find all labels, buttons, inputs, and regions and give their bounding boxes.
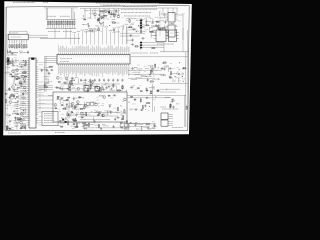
value label (19, 42, 22, 44)
U2 right pin 1 (36, 60, 38, 62)
wire (13, 122, 19, 124)
value label (73, 113, 75, 115)
U2 left pin 8 (27, 75, 29, 77)
wire (92, 29, 98, 31)
pin label (116, 66, 118, 72)
value label (152, 127, 155, 129)
value label (155, 16, 158, 18)
pin label (85, 47, 87, 52)
capacitor C4 (115, 9, 117, 13)
value label (10, 99, 13, 101)
U7 pin (154, 38, 157, 40)
value label (160, 27, 164, 29)
U1 pin number (85, 62, 87, 63)
pin label (110, 45, 112, 52)
wire (24, 108, 26, 113)
value label (113, 27, 116, 29)
wire (5, 89, 11, 91)
value label (116, 111, 120, 113)
U1 bottom pin 24 (104, 64, 106, 66)
value label (21, 77, 27, 79)
value label (151, 72, 154, 74)
pin label (74, 66, 76, 72)
value label (152, 88, 156, 90)
U2 pin number (30, 64, 31, 66)
value label (125, 129, 129, 131)
U8 pin (177, 38, 180, 40)
value label (75, 108, 77, 110)
U1 top pin 23 (102, 53, 104, 55)
wire (158, 7, 178, 9)
value label (11, 93, 15, 95)
pin label (96, 66, 98, 76)
transistor Q34 (68, 114, 71, 117)
U1 bottom pin 18 (92, 64, 94, 66)
capacitor C72 (57, 97, 59, 101)
node (8, 114, 11, 117)
capacitor C37 (169, 68, 173, 70)
pin label (104, 66, 106, 73)
wire (80, 115, 118, 117)
transistor Q2 (94, 13, 97, 16)
U3 pin 3 (13, 40, 15, 43)
resistor R70 (72, 119, 77, 120)
connector CN3 pin 3 (140, 47, 142, 49)
U1 pin number (67, 62, 69, 63)
value label (72, 107, 75, 109)
value label (95, 24, 98, 26)
resistor R79 (98, 124, 99, 129)
value label (21, 66, 27, 68)
U2 right pin 26 (36, 113, 38, 115)
value label (172, 80, 175, 82)
capacitor C84 (144, 104, 146, 108)
wire (71, 77, 73, 82)
value label (73, 31, 76, 33)
value label (105, 26, 108, 28)
U1 bottom pin 9 (74, 64, 76, 66)
resistor R202 (14, 44, 15, 49)
resistor R36 (90, 85, 91, 90)
wire (145, 20, 147, 25)
capacitor C75 (58, 121, 62, 123)
U1 bottom pin 8 (72, 64, 74, 66)
value label (14, 110, 18, 112)
value label (117, 14, 121, 16)
value label (124, 122, 127, 124)
value label (21, 65, 24, 67)
value label (76, 122, 80, 124)
resistor R77 (88, 122, 89, 127)
value label (23, 126, 26, 128)
transistor Q3 (100, 16, 103, 19)
value label (101, 88, 104, 90)
capacitor C67 (112, 79, 114, 83)
diode D30 (97, 114, 100, 116)
value label (182, 78, 185, 80)
U1 pin number (85, 55, 87, 56)
value label (160, 16, 163, 18)
value label (6, 63, 10, 65)
value label (21, 87, 27, 89)
U1 pin number (59, 55, 61, 56)
wire (182, 28, 184, 52)
subtitle text (103, 5, 125, 7)
value label (120, 123, 122, 125)
U1 pin number (61, 62, 63, 63)
wire (71, 102, 73, 107)
value label (15, 57, 17, 59)
footer text (55, 132, 65, 134)
wire (38, 115, 42, 117)
value label (126, 19, 128, 21)
IC U9 (vertical out) (84, 86, 89, 92)
wire (166, 38, 169, 40)
wire (160, 74, 166, 76)
pin label (94, 47, 96, 52)
value label (15, 106, 19, 108)
U2 left pin 6 (27, 70, 29, 72)
resistor R34 (97, 90, 102, 91)
diode D38 (130, 96, 133, 98)
transistor Q11 (23, 78, 26, 81)
pin label (71, 66, 73, 72)
U2 pin number (30, 66, 31, 68)
wire (13, 79, 15, 84)
wire (38, 81, 45, 83)
value label (21, 107, 27, 109)
value label (65, 119, 68, 121)
value label (102, 15, 105, 17)
pin label (77, 66, 79, 73)
pin label (77, 48, 79, 53)
resistor R35 (122, 85, 123, 90)
pin label (59, 66, 61, 74)
U1 pin number (63, 55, 65, 56)
wire (45, 58, 57, 60)
transistor Q12 (16, 69, 19, 72)
value label (17, 65, 20, 67)
capacitor C88 (146, 87, 148, 91)
wire (130, 52, 148, 54)
diode D24 (57, 96, 60, 98)
diode D34 (73, 107, 76, 109)
value label (72, 108, 75, 110)
value label (151, 31, 155, 33)
node (157, 66, 160, 69)
U1 pin number (125, 62, 127, 63)
transistor Q7 (69, 81, 72, 84)
node (154, 95, 157, 98)
wire (114, 29, 116, 44)
capacitor C77 (119, 122, 123, 124)
value label (72, 128, 75, 130)
wire (110, 13, 116, 15)
U1 pin number (109, 55, 111, 56)
resistor R53 (6, 126, 7, 131)
wire (145, 75, 151, 77)
value label (81, 112, 83, 114)
capacitor C13 (145, 24, 149, 26)
U1 pin number (69, 55, 71, 56)
value label (21, 85, 27, 87)
value label (21, 41, 23, 43)
CN5 pin 3 (168, 118, 173, 120)
capacitor C45 (8, 87, 10, 91)
value label (15, 123, 19, 125)
pin label (87, 46, 89, 52)
wire (58, 122, 100, 124)
value label (22, 97, 26, 99)
pin label (62, 46, 64, 53)
value label (17, 118, 19, 120)
U2 left pin 17 (27, 94, 29, 96)
node (14, 97, 17, 100)
value label (157, 43, 174, 45)
value label (130, 24, 132, 26)
value label (21, 111, 27, 113)
value label (6, 113, 11, 115)
capacitor C68 (114, 118, 116, 122)
wire (21, 109, 27, 111)
U1 bottom pin 1 (58, 64, 60, 66)
value label (136, 128, 139, 130)
capacitor C9 (98, 14, 102, 16)
value label (118, 112, 121, 114)
capacitor C57 (41, 69, 43, 73)
capacitor C69 (121, 79, 123, 83)
wire (38, 120, 42, 122)
value label (5, 59, 8, 61)
value label (15, 69, 19, 71)
transistor Q14 (16, 76, 19, 79)
U2 right pin 20 (36, 100, 38, 102)
wire (94, 124, 100, 126)
value label (107, 18, 110, 20)
value label (17, 73, 20, 75)
capacitor C48 (23, 81, 27, 83)
value label (126, 129, 128, 131)
pin label (112, 66, 114, 75)
pin label (70, 48, 72, 52)
value label (47, 15, 56, 17)
value label (71, 114, 75, 116)
value label (155, 70, 158, 72)
resistor R27 (157, 28, 162, 29)
U1 bottom pin 28 (112, 64, 114, 66)
value label (83, 123, 88, 125)
U2 left pin 9 (27, 77, 29, 79)
U1 pin number (91, 55, 93, 56)
capacitor C34 (147, 78, 149, 82)
value label (153, 99, 156, 101)
pin label (93, 47, 95, 52)
resistor R13 (74, 20, 75, 29)
U2 pin number (30, 83, 31, 85)
node (98, 21, 101, 24)
node (149, 74, 152, 77)
U2 pin number (30, 122, 31, 124)
pin label (118, 66, 120, 75)
pin label (91, 66, 93, 75)
resistor R29 (134, 46, 139, 47)
value label (81, 97, 84, 99)
value label (13, 71, 15, 73)
value label (90, 85, 94, 87)
resistor R1 (47, 20, 48, 29)
wire (94, 102, 100, 104)
capacitor C40 (177, 73, 181, 75)
U1 pin number (125, 55, 127, 56)
value label (68, 110, 71, 112)
capacitor C26 (68, 86, 70, 90)
U1 bottom pin 30 (116, 64, 118, 66)
value label (23, 61, 26, 63)
pin label (126, 46, 128, 52)
value label (111, 10, 113, 12)
U1 pin number (123, 55, 125, 56)
value label (105, 82, 109, 84)
value label (21, 81, 27, 83)
U1 top pin 9 (74, 53, 76, 55)
U2 right pin 23 (36, 107, 38, 109)
part list text (123, 6, 157, 8)
capacitor C54 (21, 125, 25, 127)
node (91, 30, 94, 33)
U1 top pin 1 (58, 53, 60, 55)
value label (15, 104, 19, 106)
U2 left pin 12 (27, 83, 29, 85)
U2 right pin 12 (36, 83, 38, 85)
IC U8 (169, 30, 177, 42)
wire (56, 88, 100, 90)
value label (106, 113, 109, 115)
value label (150, 130, 152, 132)
pin label (75, 47, 77, 53)
U1 pin number (83, 55, 85, 56)
resistor R39 (122, 85, 123, 90)
U5/U6 pin (175, 13, 178, 15)
capacitor C69 (109, 111, 113, 113)
capacitor C63 (77, 96, 81, 98)
U2 pin number (30, 109, 31, 111)
resistor R23 (158, 24, 159, 29)
value label (130, 108, 134, 110)
value label (113, 111, 116, 113)
capacitor C11 (155, 24, 157, 28)
value label (152, 19, 154, 21)
U5/U6 pin (166, 19, 169, 21)
resistor R5 (56, 20, 57, 29)
U2 right pin 30 (36, 122, 38, 124)
value label (144, 71, 146, 73)
value label (152, 29, 154, 31)
wire (59, 119, 65, 121)
CN4 pin 4 label (44, 119, 54, 121)
value label (136, 29, 139, 31)
value label (110, 13, 112, 15)
wire (26, 31, 28, 34)
capacitor C74 (75, 113, 77, 117)
value label (162, 108, 178, 110)
node (12, 110, 15, 113)
diode D6 (58, 81, 61, 83)
pin label (58, 66, 60, 74)
node (156, 20, 159, 23)
IC U2 (micom) (29, 58, 36, 128)
U1 top pin 35 (126, 53, 128, 55)
resistor R46 (182, 68, 187, 69)
node (139, 22, 142, 25)
U2 pin number (30, 115, 31, 117)
value label (153, 75, 155, 77)
wire (38, 90, 41, 92)
value label (14, 45, 16, 47)
value label (89, 103, 91, 105)
value label (81, 29, 84, 31)
value label (81, 79, 84, 81)
value label (67, 79, 69, 81)
value label (21, 96, 25, 98)
CN5 pin 1 (168, 114, 173, 116)
U2 pin number (30, 98, 31, 100)
pin label (66, 66, 68, 75)
value label (87, 104, 90, 106)
value label (172, 127, 183, 129)
value label (102, 102, 104, 104)
pin label (82, 46, 84, 52)
value label (83, 84, 85, 86)
pin label (118, 45, 120, 52)
pin label (65, 49, 67, 53)
value label (59, 77, 62, 79)
value label (157, 89, 160, 91)
capacitor C79 (83, 127, 87, 129)
wire (16, 125, 18, 130)
U2 left pin 28 (27, 118, 29, 120)
diode D1 (83, 19, 86, 21)
wire (123, 25, 125, 30)
value label (60, 15, 70, 17)
pin label (108, 66, 110, 74)
node (15, 125, 18, 128)
wire (10, 30, 28, 32)
value label (100, 19, 102, 21)
wire (128, 73, 162, 75)
value label (82, 118, 85, 120)
wire (163, 43, 165, 52)
transistor Q28 (80, 112, 83, 115)
value label (23, 123, 25, 125)
U1 bottom pin 2 (60, 64, 62, 66)
pin label (124, 47, 126, 52)
value label (20, 52, 28, 54)
value label (114, 14, 116, 16)
value label (152, 127, 154, 129)
diode D19 (19, 127, 22, 129)
capacitor C8 (113, 28, 115, 32)
value label (149, 97, 151, 99)
value label (100, 87, 103, 89)
value label (110, 29, 112, 31)
wire (158, 17, 168, 19)
U1 pin number (105, 62, 107, 63)
wire (110, 32, 112, 45)
pin label (68, 48, 70, 53)
value label (182, 69, 184, 71)
wire (142, 47, 164, 49)
U5/U6 pin (175, 32, 178, 34)
